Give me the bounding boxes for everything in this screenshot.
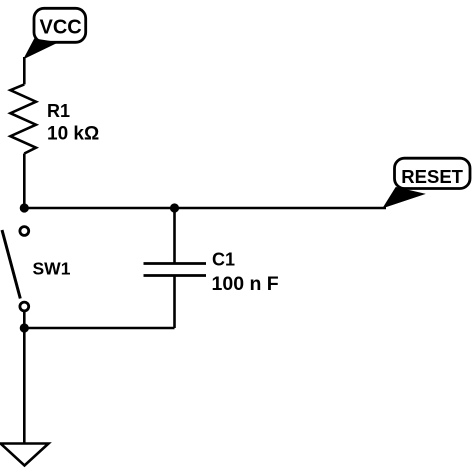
resistor R1 designator label <box>47 101 70 121</box>
wire top horizontal node to RESET <box>24 207 386 210</box>
svg-text:100 n F: 100 n F <box>212 273 279 295</box>
capacitor C1 designator label <box>212 250 235 270</box>
junction node R1/SW1 <box>20 203 29 212</box>
wire node to ground <box>23 328 26 444</box>
wire C1 top lead <box>173 208 176 264</box>
svg-text:SW1: SW1 <box>33 259 71 279</box>
switch SW1 terminal pin 2 <box>20 302 29 311</box>
resistor R1 value label 10 kΩ <box>47 124 99 145</box>
net flag RESET <box>384 158 471 207</box>
resistor R1 <box>10 84 36 153</box>
svg-text:VCC: VCC <box>40 17 82 39</box>
junction node C1 top <box>170 203 179 212</box>
wire C1 bottom lead <box>173 276 176 329</box>
svg-text:10 kΩ: 10 kΩ <box>47 124 99 145</box>
wire VCC to resistor R1 <box>23 57 26 84</box>
svg-text:RESET: RESET <box>401 166 463 187</box>
wire switch SW1 to bottom node <box>23 311 26 328</box>
capacitor C1 value label 100 n F <box>212 273 279 295</box>
svg-text:C1: C1 <box>212 250 235 270</box>
switch SW1 lever <box>2 230 20 299</box>
switch SW1 designator label <box>33 259 71 279</box>
wire bottom horizontal node to C1 <box>24 327 174 330</box>
svg-text:R1: R1 <box>47 101 70 121</box>
junction node SW1/C1 bottom <box>20 323 29 332</box>
wire resistor R1 to node <box>23 154 26 209</box>
capacitor C1 <box>144 264 207 276</box>
switch SW1 terminal pin 1 <box>20 227 29 236</box>
net flag VCC <box>24 8 85 58</box>
ground <box>1 444 49 466</box>
